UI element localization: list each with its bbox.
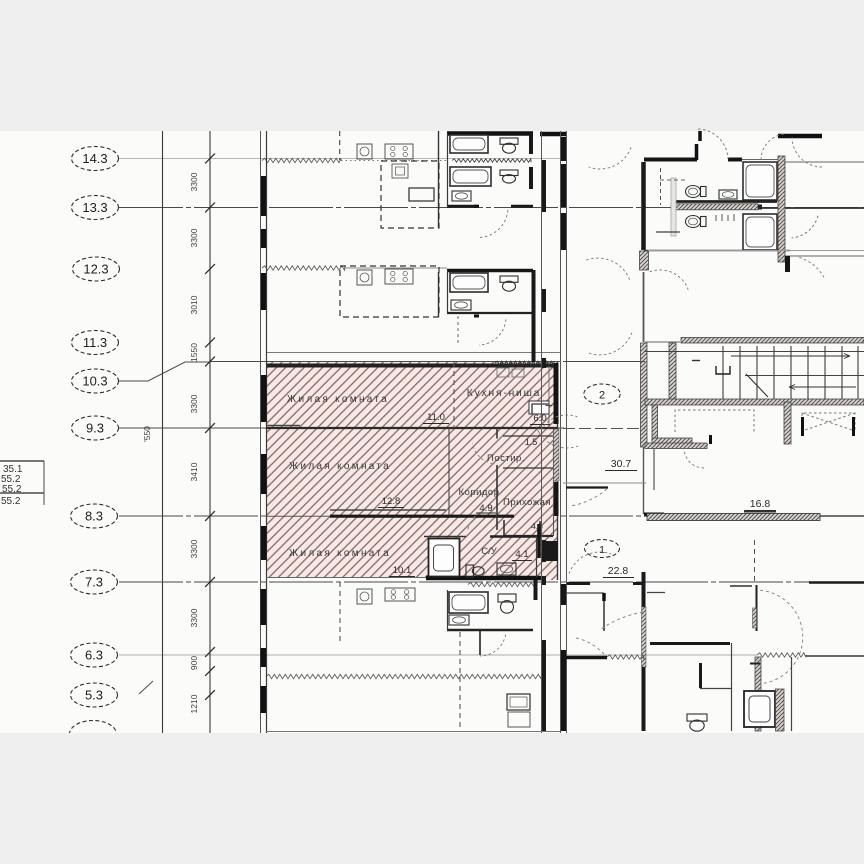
bathtub upper A1 (450, 135, 488, 153)
upper left window y273 (261, 273, 267, 310)
toilet upper B (500, 276, 518, 291)
unit bubble 2 (584, 384, 620, 404)
lower unit bottom fixtures (266, 731, 560, 733)
corridor room top line (566, 592, 604, 594)
lower left wall line (266, 580, 268, 733)
underline 6.0 (530, 424, 550, 426)
underline 10.1 (389, 576, 415, 578)
underline 4.9 (476, 512, 496, 514)
door arc postir (472, 443, 492, 463)
far right wall seg (785, 256, 790, 272)
svg-text:4.9: 4.9 (479, 503, 492, 514)
dimension tick at y582 (205, 577, 215, 587)
stove lower (385, 588, 415, 601)
postir bottom wall (503, 467, 553, 469)
toilet upper A1 (500, 138, 518, 153)
underline 12.8 (378, 507, 404, 509)
svg-text:3300: 3300 (189, 608, 199, 627)
shower cabin (429, 539, 460, 577)
insulation 6.3 right (607, 655, 644, 659)
flat left window y526 (261, 526, 267, 560)
svg-text:'550: '550 (142, 426, 152, 442)
svg-text:13.3: 13.3 (82, 200, 107, 215)
door arc corridor 2 (586, 258, 630, 280)
stair arrowhead up (844, 354, 850, 359)
axis bubble 8.3 (71, 504, 118, 528)
main wall x644 mid (643, 272, 645, 342)
bath right wall thin (536, 537, 538, 577)
washing machine lower (507, 694, 530, 710)
top-right wall thin (742, 159, 781, 161)
divider under bath 2 (644, 250, 790, 252)
door arc lower unit (480, 635, 506, 657)
prihozhaya wall x504 (503, 520, 505, 537)
postir left wall upper (496, 428, 498, 439)
svg-text:8.3: 8.3 (85, 509, 103, 524)
svg-text:30.7: 30.7 (611, 458, 632, 470)
shower wall hatched strip (776, 689, 785, 731)
dimension tick at y695 (205, 690, 215, 700)
stairs left hatched wall (669, 343, 676, 399)
prihozhaya wall hatch strip (554, 429, 560, 481)
door arc below elevator (684, 448, 704, 468)
lower right wall h (650, 642, 730, 645)
toilet lower (498, 594, 516, 613)
axis bubble 6.3 (71, 643, 118, 667)
flat divider rooms 1-2 (266, 427, 558, 429)
lower unit right wall (534, 580, 538, 600)
top-right room wall b (728, 158, 742, 162)
svg-text:1: 1 (599, 544, 605, 556)
area table mid rule (0, 492, 44, 494)
unit bubble 1 (585, 540, 620, 558)
svg-text:3300: 3300 (189, 394, 199, 413)
sink upper B (451, 300, 471, 310)
door arc corridor 5 (539, 415, 578, 435)
insulation 6.3 far right (757, 653, 806, 657)
door arc room right wing (650, 270, 689, 290)
flat left window y454 (261, 454, 267, 494)
door arc corridor 4 (536, 426, 578, 448)
hall partition wall (504, 535, 553, 537)
stove upper A (385, 144, 413, 159)
svg-text:55.2: 55.2 (2, 484, 22, 495)
underline 11.0 (423, 423, 449, 425)
svg-text:14.3: 14.3 (82, 151, 107, 166)
door arc right room (799, 258, 824, 278)
sink flat S/U (497, 563, 516, 575)
svg-text:Кухня-ниша: Кухня-ниша (467, 388, 541, 399)
drawing sheet (0, 131, 864, 733)
stair arrowhead down (789, 385, 795, 390)
svg-text:3010: 3010 (189, 295, 199, 314)
svg-text:10.1: 10.1 (393, 565, 412, 576)
stair tread 6 (807, 346, 809, 399)
svg-text:7.3: 7.3 (85, 575, 103, 590)
strip wall block y576 (542, 576, 546, 585)
sink upper A (452, 191, 471, 201)
dimension tick at y207 (205, 203, 215, 213)
fridge upper A (392, 164, 408, 178)
elevator left shaft wall (652, 405, 658, 444)
kitchen dashed top stub A (339, 131, 341, 160)
wall under bath 1 (675, 200, 777, 203)
svg-text:11.0: 11.0 (427, 412, 445, 423)
corridor room wall x604 (603, 593, 605, 631)
svg-text:3300: 3300 (189, 539, 199, 558)
main wall pier hatched (640, 251, 649, 270)
wall 7.3 black right (809, 581, 864, 584)
kitchen right thin line (548, 366, 550, 428)
bathtub lower (449, 592, 488, 613)
shelf upper A (409, 188, 434, 201)
insulation upper B (262, 266, 345, 270)
flat top wall (266, 364, 558, 368)
insulation lower (266, 674, 541, 678)
corridor wall block y213 (561, 213, 566, 250)
flat left wall line (266, 362, 268, 580)
stair tread 2 (739, 346, 741, 399)
bath top wall left (424, 536, 466, 538)
closet top-right (671, 178, 676, 236)
svg-text:12.8: 12.8 (382, 496, 401, 507)
door arc corridor 6 (569, 552, 611, 574)
dimension tick at y361 (205, 357, 215, 367)
door arc lower right a (600, 612, 643, 630)
bathtub top-right 2 (743, 214, 777, 250)
axis line 10.3 top-of-flat (210, 361, 560, 363)
stairs mid landing (745, 375, 864, 377)
elevator door bar 1 (709, 435, 712, 444)
toilet top-right 1 (686, 186, 707, 198)
right wing line c (563, 361, 645, 363)
bathtub upper B (450, 273, 488, 292)
corridor wall block y650 (561, 650, 566, 731)
axis leader 10.3 (119, 362, 210, 381)
main wall y517 right thin (820, 515, 864, 517)
partition dashes top right (660, 179, 686, 181)
lower right wall v (699, 663, 702, 688)
wall stub y592 (647, 592, 665, 594)
upper left window y229 (261, 229, 267, 248)
door arc unit B (479, 319, 506, 345)
door jamb unit B (474, 315, 479, 318)
corridor hatched wall top (671, 204, 758, 210)
kitchen sink lower (357, 589, 372, 604)
left wall outer line full (260, 131, 262, 733)
far right top line (784, 161, 864, 163)
far right mid line (784, 255, 864, 257)
insulated line 6.3 ticks (806, 655, 864, 657)
insulation in bath wall A (452, 159, 531, 163)
corridor wall black 583-605 (561, 584, 566, 605)
stair tread 3 (756, 346, 758, 399)
svg-text:6.0: 6.0 (533, 413, 546, 424)
hanger marks room 2 (716, 214, 734, 221)
hall wall block (545, 541, 558, 561)
svg-text:22.8: 22.8 (608, 565, 629, 577)
dashed stub below bath B (457, 316, 459, 346)
kitchen niche dashed upper A (381, 161, 439, 228)
top-right room wall (644, 158, 697, 162)
door arc corridor top (589, 147, 631, 169)
door arc top-right room (698, 129, 728, 159)
top wall right wing (778, 134, 822, 139)
axis bubble 7.3 (71, 570, 118, 594)
flat divider rooms 2-3 thick (330, 515, 514, 518)
svg-text:3300: 3300 (189, 172, 199, 191)
corridor line right of cap (762, 207, 864, 209)
bathroom A bottom wall a (447, 205, 478, 208)
svg-text:Жилая комната: Жилая комната (289, 548, 391, 559)
kitchen sink upper B (357, 270, 372, 285)
elevator divider wall (784, 402, 791, 444)
area table top rule (0, 460, 44, 462)
door arc bath lower right (760, 590, 803, 684)
elevator lobby wall (653, 448, 655, 490)
door arc unit A (479, 210, 508, 237)
door arc corridor 3 (588, 333, 632, 355)
wall 7.3 second line (730, 585, 752, 587)
axis line 6.3 (119, 654, 757, 656)
underline 16.8 (744, 510, 776, 512)
svg-text:С/У: С/У (481, 546, 498, 557)
axis bubble 12.3 (73, 257, 120, 281)
svg-text:9.3: 9.3 (86, 421, 104, 436)
dimension tick at y652 (205, 647, 215, 657)
bathroom A left wall (447, 133, 449, 207)
lower left window y589 (261, 589, 267, 625)
svg-text:3300: 3300 (189, 228, 199, 247)
lower left window y686 (261, 686, 267, 713)
flat divider radiator a (267, 425, 300, 427)
lower right shaft wall (755, 657, 761, 731)
strip wall block y289 (542, 289, 546, 312)
lower right wall h2 (700, 688, 731, 690)
upper left wall line (266, 131, 268, 362)
flat right wall line (557, 362, 559, 580)
axis bubble 4.3 partial (70, 721, 117, 748)
corridor left wall (448, 428, 450, 515)
stair door bracket (716, 366, 730, 374)
elevator shaft bottom left (652, 438, 692, 444)
svg-text:4.1: 4.1 (515, 549, 528, 560)
bath top wall right (490, 535, 536, 538)
door arc lower right a2 (576, 638, 604, 654)
stair tread 1 (722, 346, 724, 399)
flat right wall seg y482 (554, 482, 559, 516)
stair arrow up (731, 355, 850, 357)
door arc right corridor (792, 216, 818, 238)
stair short dash (692, 360, 700, 362)
axis bubble 14.3 (72, 147, 119, 171)
main wall x644 stair side (641, 343, 648, 447)
axis line 13.3 (119, 207, 864, 209)
svg-text:11.3: 11.3 (83, 335, 107, 350)
elevator door bar 2b (852, 417, 855, 436)
toilet lower right (687, 714, 707, 731)
kitchen sink upper A (357, 144, 372, 159)
svg-text:16.8: 16.8 (750, 498, 771, 510)
sink lower (449, 615, 469, 625)
axis bubble 5.3 (71, 683, 118, 707)
shower lower right (744, 691, 775, 727)
corridor room wall cap (602, 593, 606, 601)
door arc top right b (761, 134, 786, 160)
svg-text:10.3: 10.3 (82, 374, 107, 389)
underline 4.1 (512, 560, 532, 562)
dimension line A (162, 131, 164, 733)
dimension tick at y516 (205, 511, 215, 521)
stair tread 8 (841, 346, 843, 399)
shaft wall hatched right (778, 156, 785, 262)
flat bottom boundary (266, 577, 426, 579)
svg-text:Жилая комната: Жилая комната (287, 394, 389, 405)
dashed partition lower right (754, 540, 756, 583)
elevator bottom hatched (645, 443, 707, 449)
corridor-side wall line (553, 428, 555, 536)
flat hatched floor (267, 362, 558, 580)
door leaf lower unit (479, 630, 481, 655)
unit A right wall b (529, 167, 533, 189)
unit A right wall a (529, 133, 533, 154)
strip wall block y160 (542, 160, 546, 212)
upper corridor top wall (540, 132, 567, 137)
dimension tick at y428 (205, 423, 215, 433)
toilet upper A2 (500, 170, 518, 183)
bathtub upper A2 (450, 167, 491, 186)
underline 22.8 (603, 577, 634, 579)
svg-text:900: 900 (189, 656, 199, 670)
corridor wall block y137 (561, 137, 566, 161)
kitchen dashed lower (339, 582, 341, 642)
stairs top hatched wall (681, 338, 864, 344)
bath wall hatch block (753, 608, 757, 628)
upper B wall line (345, 267, 447, 269)
stairs top line (645, 351, 864, 353)
partition top right h (656, 231, 680, 233)
flat left window y375 (261, 375, 267, 422)
wall seg 7.3 a (567, 582, 590, 585)
axis bubble 10.3 (72, 369, 119, 393)
main wall x644 lower (642, 572, 646, 607)
insulation upper A (262, 158, 341, 162)
axis line 9.3 (119, 427, 564, 429)
kitchen right solid edge A (438, 131, 440, 228)
dimension line B (209, 131, 211, 733)
flat divider rooms 2-3 thin (266, 515, 330, 517)
door jamb unit A left (474, 205, 479, 208)
elevator cab 2 with cross (802, 413, 855, 431)
wall stub top x700 (698, 131, 702, 141)
sink top-right 1 (719, 190, 737, 199)
svg-text:1210: 1210 (189, 694, 199, 713)
flat entry swing (570, 489, 607, 506)
elevator door bar 2a (801, 417, 804, 436)
corridor wall cap (758, 205, 762, 210)
right wing line a (648, 250, 864, 252)
flat right wall seg y363 (554, 363, 559, 424)
svg-text:6.3: 6.3 (85, 648, 103, 663)
bathroom lower bottom wall (447, 629, 533, 631)
wall seg 7.3 b (633, 582, 643, 585)
insulation on flat top wall (495, 361, 554, 365)
corridor light line (563, 482, 646, 484)
wall seg below16.8 (744, 511, 776, 513)
corridor dashed center (563, 428, 645, 430)
stair tread 4 (773, 346, 775, 399)
upper left window y176 (261, 176, 267, 216)
dimension tick at y269 (205, 264, 215, 274)
axis bubble 11.3 (72, 331, 119, 355)
svg-text:1.5: 1.5 (525, 437, 538, 447)
svg-text:55.2: 55.2 (1, 496, 21, 507)
stair tread 5 (790, 346, 792, 399)
kitchen right solid edge B (438, 272, 440, 317)
strip wall block y640 (542, 640, 546, 731)
bathroom lower left wall (447, 590, 449, 630)
hall right nib (539, 521, 541, 536)
svg-text:12.3: 12.3 (83, 262, 108, 277)
stair tread 7 (824, 346, 826, 399)
bath right wall (537, 524, 541, 558)
svg-text:5.3: 5.3 (85, 688, 103, 703)
corridor wall line b (566, 131, 568, 733)
bath wall vertical x756 (756, 585, 758, 631)
svg-text:3410: 3410 (189, 462, 199, 481)
underline 30.7 (605, 470, 637, 472)
svg-text:Коридор: Коридор (458, 487, 499, 498)
area table right rule (43, 461, 45, 505)
postir left wall lower (496, 465, 498, 530)
corridor wall block y164 (561, 164, 566, 207)
elevator cab 1 (675, 410, 754, 432)
dashed partition top right (660, 168, 662, 205)
axis bubble 13.3 (72, 196, 119, 220)
right wing line b (645, 341, 680, 343)
lower left window y648 (261, 648, 267, 667)
strip wall left (541, 131, 543, 733)
flat top wall thin line (266, 352, 560, 354)
axis line 8.3 (119, 515, 864, 517)
main wall x644 lowest (642, 667, 646, 731)
upper A wall line (341, 160, 447, 162)
plus mark kitchen (546, 402, 553, 409)
kitchen niche dashed divider (453, 362, 455, 428)
svg-text:Жилая комната: Жилая комната (289, 461, 391, 472)
bottom cabinet (508, 712, 530, 727)
strip wall block y358 (542, 358, 546, 368)
stair tread 9 (857, 346, 859, 399)
vent icon on wall (497, 368, 524, 377)
strip wall block y540 (542, 540, 546, 562)
stove upper B (385, 269, 413, 284)
bathroom B bottom wall (447, 312, 533, 314)
toilet top-right 2 (686, 216, 707, 228)
bathroom B top wall (447, 269, 533, 272)
dimension tick at y158 (205, 154, 215, 164)
wall 6.3 black left (562, 656, 607, 660)
wall stub x756 (750, 663, 760, 665)
door arc top right a (792, 137, 822, 167)
svg-text:1550: 1550 (189, 343, 199, 362)
dimension tick at y671 (205, 666, 215, 676)
axis bubble 9.3 (72, 416, 119, 440)
main wall x644 pier low (642, 607, 647, 667)
bathtub top-right 1 (743, 162, 777, 200)
corridor wall line a (560, 131, 562, 733)
leader near 5.3 (139, 681, 153, 694)
